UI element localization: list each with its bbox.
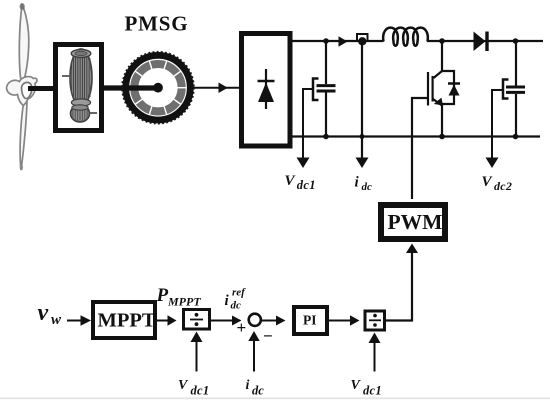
svg-text:PMSG: PMSG [125, 12, 189, 36]
wire divide1 to sum [210, 320, 233, 322]
i_dc input arrow to sum [253, 340, 255, 372]
PI block [294, 307, 327, 334]
blade tip marks [20, 3, 25, 10]
wind turbine rotor [7, 5, 37, 170]
node cap1 bottom [323, 134, 329, 140]
svg-text:dc: dc [362, 181, 373, 193]
node collector [439, 38, 445, 44]
svg-text:MPPT: MPPT [98, 310, 156, 332]
summing junction [249, 314, 261, 326]
PWM block [381, 205, 445, 239]
svg-text:+: + [237, 318, 247, 337]
svg-text:dc: dc [231, 300, 242, 312]
svg-text:w: w [51, 312, 62, 328]
diode D1 on top rail [474, 32, 486, 52]
divide block 2 [365, 311, 385, 330]
wire sum to PI [261, 320, 278, 322]
svg-text:MPPT: MPPT [167, 295, 201, 309]
wire top rail [290, 40, 384, 42]
gearbox [56, 45, 102, 131]
svg-text:PI: PI [303, 313, 317, 328]
shaft gearbox to PMSG [101, 85, 158, 90]
svg-text:P: P [156, 285, 169, 306]
svg-text:dc1: dc1 [297, 178, 316, 192]
shaft turbine to gearbox [28, 86, 56, 91]
voltage probe bracket Vdc1 [313, 79, 319, 101]
svg-text:dc2: dc2 [494, 179, 512, 193]
wire PI to divide2 [327, 320, 351, 322]
current direction arrow on rail [339, 36, 348, 46]
wire MPPT to divide1 [157, 320, 168, 322]
bottom scan artifact line [0, 397, 550, 399]
svg-text:v: v [38, 300, 49, 326]
divide block 1 [184, 310, 210, 330]
wire v_w to MPPT [67, 320, 81, 322]
inductor L [383, 28, 428, 46]
current sensor node i_dc [357, 34, 368, 41]
Vdc1 input arrow to divide1 [196, 341, 198, 372]
rectifier diode [265, 69, 267, 109]
svg-text:−: − [263, 327, 273, 346]
Vdc1 input arrow to divide2 [374, 342, 376, 372]
node cap2 bottom [513, 134, 519, 140]
rectifier bridge [242, 34, 291, 147]
svg-text:dc1: dc1 [363, 384, 382, 398]
svg-text:i: i [246, 378, 250, 393]
svg-text:ref: ref [232, 287, 246, 299]
capacitor C2 [515, 41, 517, 86]
svg-text:dc: dc [252, 384, 264, 398]
wire bottom rail [290, 135, 540, 137]
PWM input arrow from control [386, 252, 412, 321]
node cap1 top [323, 38, 329, 44]
wire PMSG to rectifier with arrow [193, 87, 239, 89]
probe wire Vdc1 [303, 89, 313, 158]
svg-text:PWM: PWM [388, 210, 443, 234]
IGBT Q1 [412, 41, 454, 199]
node emitter [439, 134, 445, 140]
voltage probe bracket Vdc2 [503, 80, 509, 99]
freewheel diode [448, 82, 460, 85]
i_dc measurement wire [361, 44, 363, 158]
PMSG generator [122, 52, 194, 124]
MPPT block [93, 302, 155, 338]
probe wire Vdc2 [492, 90, 503, 158]
capacitor C1 [325, 41, 327, 84]
node cap2 top [513, 38, 519, 44]
svg-text:dc1: dc1 [191, 384, 210, 398]
